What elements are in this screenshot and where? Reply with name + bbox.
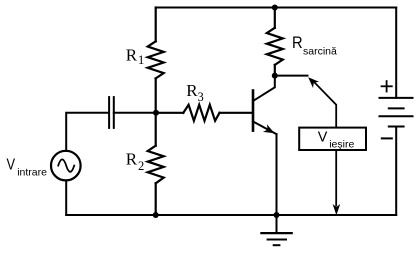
wire left branch top (source to capacitor) [66, 113, 109, 151]
junction node collector / Rsarcina / probe [272, 73, 278, 79]
wire emitter to bottom rail [276, 134, 278, 215]
svg-text:V: V [7, 156, 16, 173]
capacitor C1 [109, 97, 114, 128]
probe arrow to collector node [313, 81, 336, 127]
probe arrowhead at collector node [308, 77, 319, 88]
transistor Q1 collector lead [253, 76, 275, 101]
transistor Q1 emitter arrowhead [263, 124, 275, 133]
svg-text:2: 2 [138, 159, 144, 173]
wire bottom ground rail [66, 214, 396, 216]
svg-text:R: R [126, 46, 138, 65]
transistor Q1 emitter lead [253, 122, 277, 135]
probe arrowhead to ground rail [333, 204, 341, 215]
resistor R1 [148, 8, 164, 113]
svg-text:ieşire: ieşire [329, 139, 354, 151]
ground symbol [261, 215, 291, 245]
svg-text:1: 1 [138, 53, 144, 67]
wire battery - to bottom rail [395, 127, 397, 216]
source V_intrare [51, 151, 81, 181]
svg-text:R: R [292, 33, 303, 52]
wire capacitor to node A [114, 112, 156, 114]
wire right vertical to battery + [395, 8, 397, 98]
wire top supply rail [156, 7, 397, 9]
transistor Q1 base bar [252, 91, 255, 131]
junction node emitter bottom rail [274, 212, 280, 218]
battery B1 [380, 98, 413, 127]
svg-text:intrare: intrare [17, 166, 47, 178]
wire Viesire box to down arrow [335, 150, 337, 206]
wire source bottom to rail [65, 181, 67, 216]
svg-text:sarcină: sarcină [303, 46, 337, 58]
battery - label [382, 137, 392, 139]
resistor Rsarcina [267, 8, 283, 77]
resistor R2 [148, 113, 164, 215]
svg-text:R: R [126, 150, 138, 169]
box V_iesire [299, 128, 366, 150]
svg-text:3: 3 [198, 90, 204, 104]
junction node A (R1/R2/C1/R3) [153, 110, 159, 116]
junction node R2 bottom rail [153, 212, 159, 218]
wire collector node stub [275, 75, 308, 77]
svg-text:V: V [318, 129, 328, 145]
resistor R3 [156, 105, 252, 121]
svg-text:R: R [186, 81, 198, 100]
battery + label [382, 81, 392, 91]
junction node top rail / Rsarcina [272, 5, 278, 11]
